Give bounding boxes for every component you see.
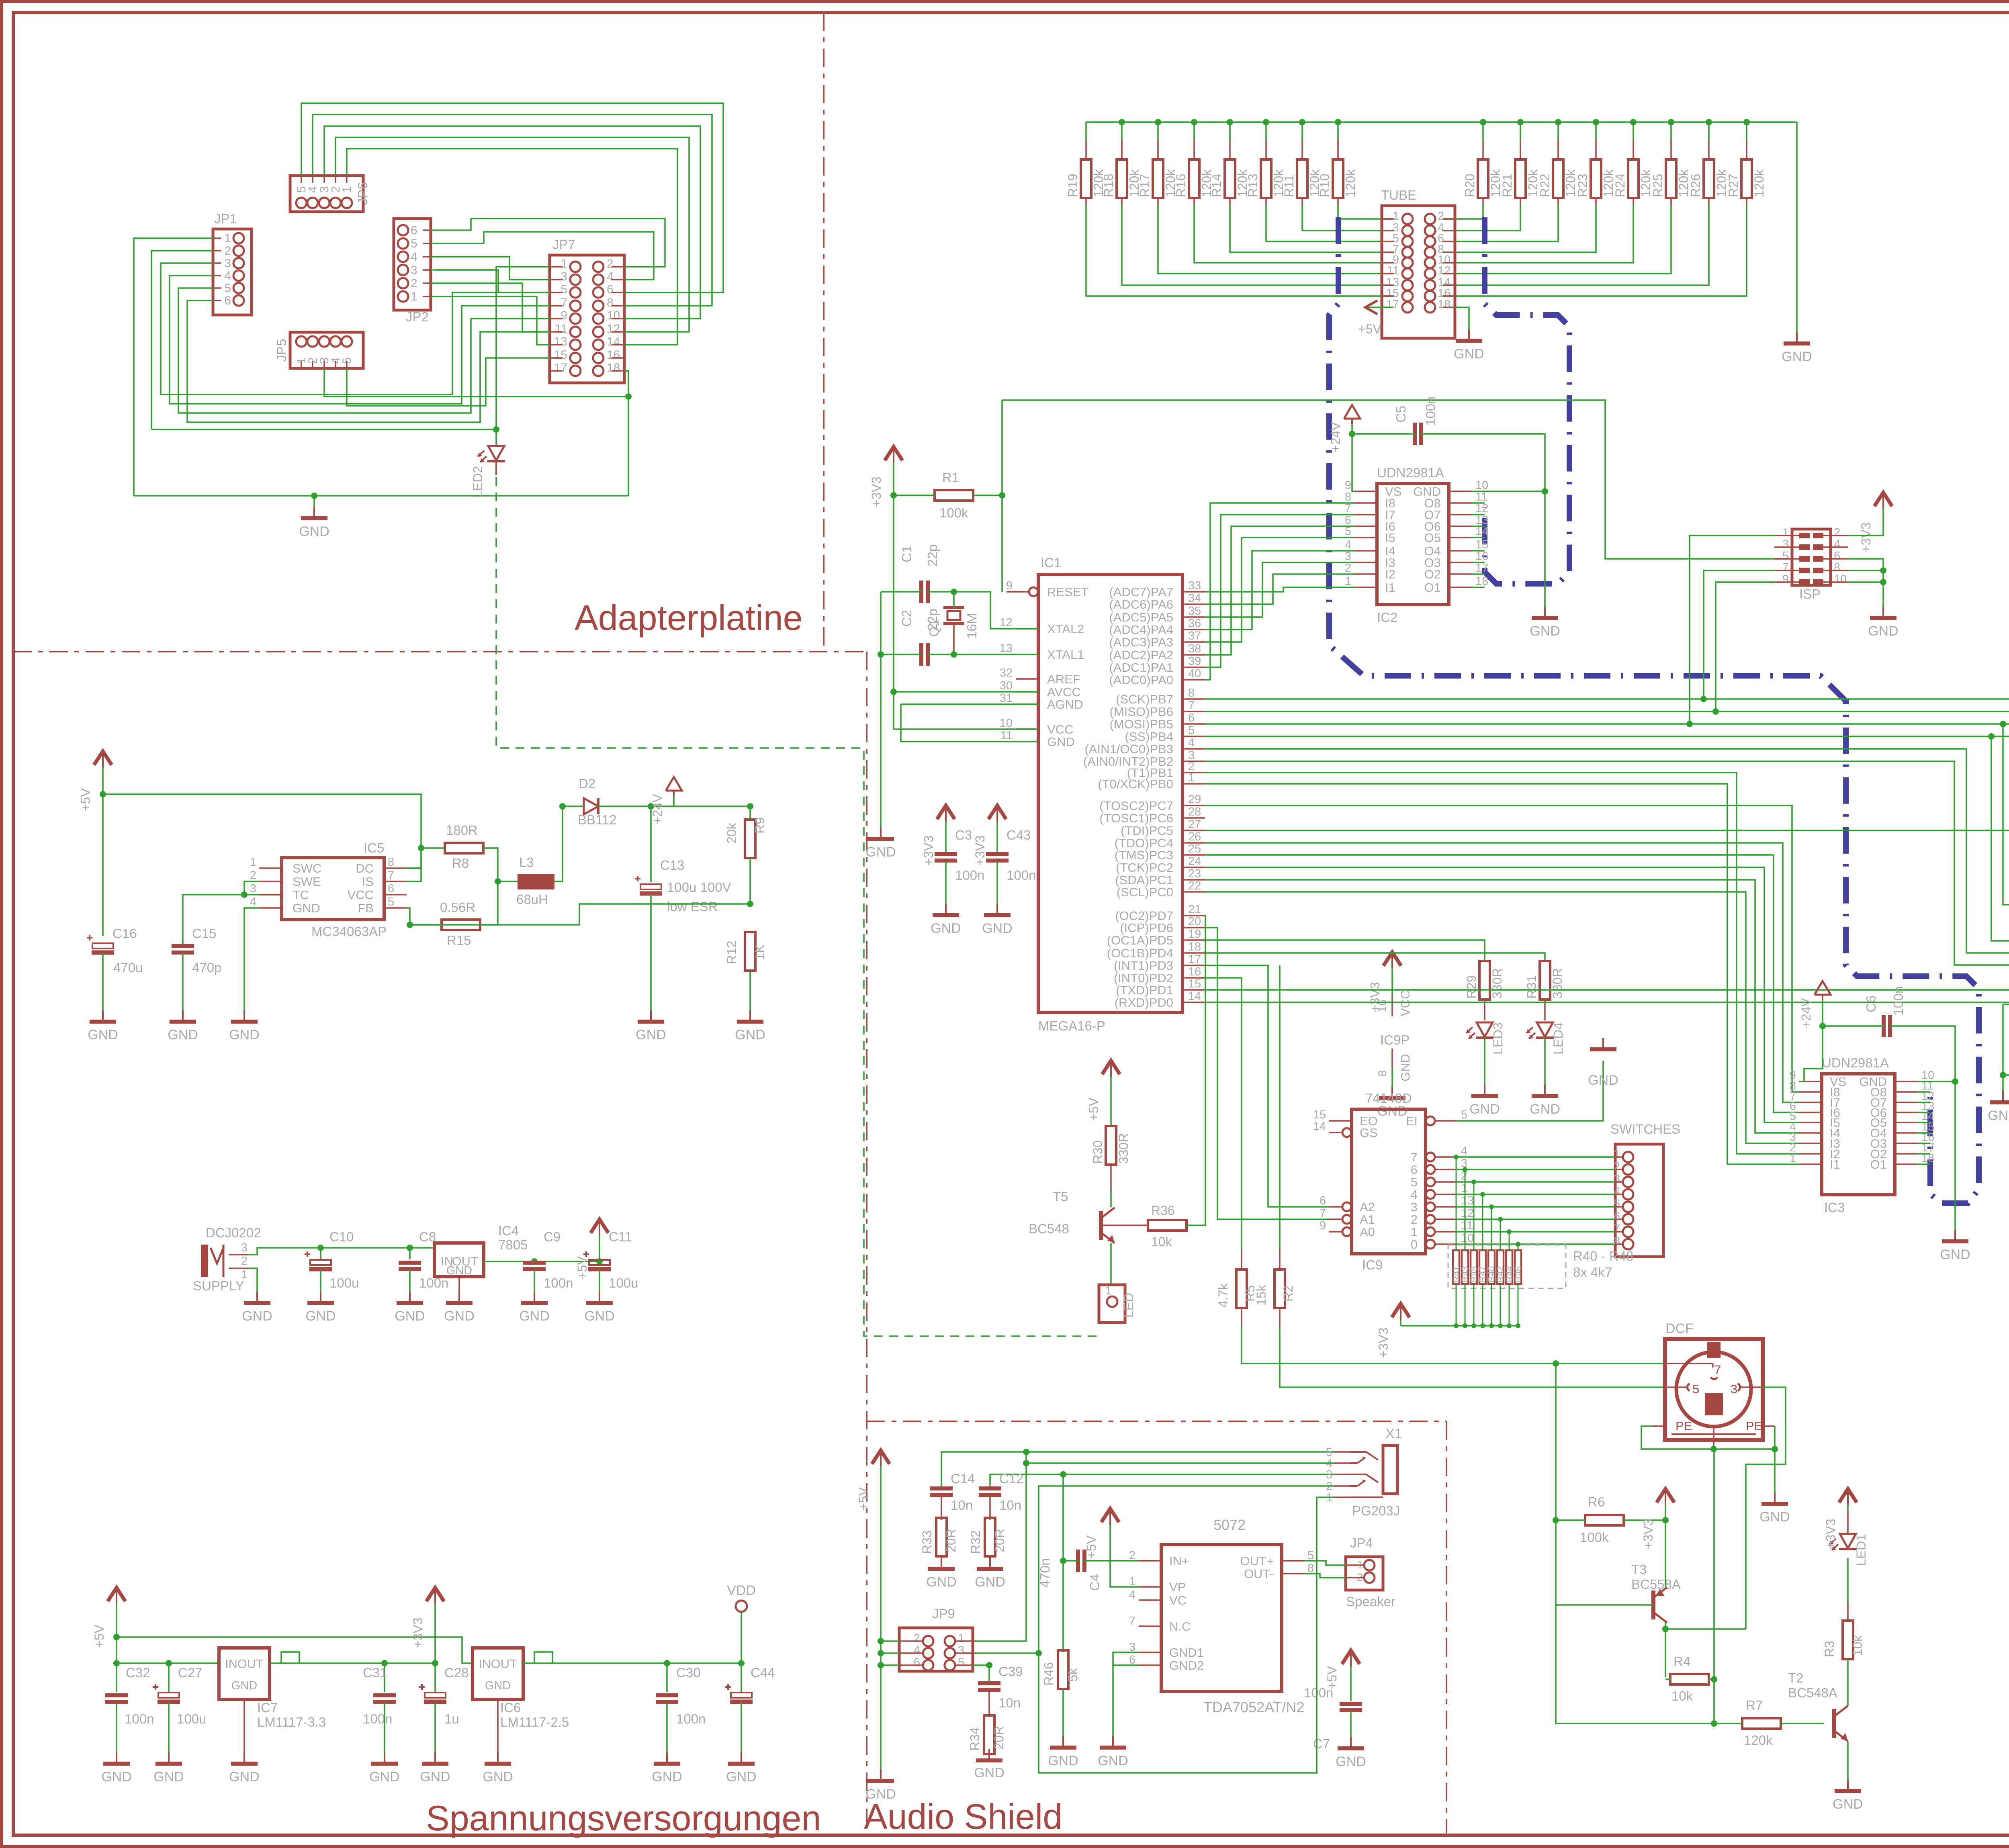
svg-text:27: 27 xyxy=(1188,818,1201,831)
svg-text:R34: R34 xyxy=(968,1727,982,1751)
resistor R18 120k xyxy=(1101,122,1394,285)
resistor R3 10k xyxy=(1822,1558,1865,1679)
svg-text:5: 5 xyxy=(388,895,394,908)
svg-text:6: 6 xyxy=(1411,1163,1418,1177)
svg-text:13: 13 xyxy=(1000,642,1013,655)
svg-text:C7: C7 xyxy=(1313,1736,1330,1751)
svg-text:100u 100V: 100u 100V xyxy=(667,880,731,895)
svg-text:R1: R1 xyxy=(942,470,959,485)
svg-text:IC9P: IC9P xyxy=(1380,1032,1410,1047)
svg-text:16: 16 xyxy=(607,348,620,362)
section divider left column vertical xyxy=(866,652,867,1835)
svg-text:14: 14 xyxy=(1188,990,1201,1003)
section divider audio shield right xyxy=(1446,1421,1447,1835)
svg-text:8: 8 xyxy=(388,856,394,869)
capacitor C28 1u xyxy=(419,1663,469,1785)
svg-text:IC7: IC7 xyxy=(257,1700,278,1715)
svg-text:I1: I1 xyxy=(1385,581,1395,595)
svg-text:31: 31 xyxy=(1000,692,1013,705)
svg-text:11: 11 xyxy=(1461,1219,1473,1232)
svg-text:5: 5 xyxy=(1307,1549,1314,1562)
svg-text:0: 0 xyxy=(1411,1237,1418,1251)
IC9 74148D xyxy=(1313,1091,1474,1272)
connector JP1 xyxy=(213,211,252,315)
svg-text:BC558A: BC558A xyxy=(1631,1577,1681,1592)
svg-text:7: 7 xyxy=(1188,699,1195,712)
svg-text:C4: C4 xyxy=(1087,1574,1102,1591)
svg-text:1u: 1u xyxy=(444,1711,459,1726)
svg-text:(ADC1)PA1: (ADC1)PA1 xyxy=(1109,660,1173,675)
svg-text:A2: A2 xyxy=(1360,1200,1375,1214)
svg-text:GND: GND xyxy=(293,901,320,915)
connector SWITCHES xyxy=(1610,1122,1680,1257)
resistor R4 10k xyxy=(1665,1654,1717,1703)
capacitor C12 10n xyxy=(979,1471,1334,1520)
resistor R17 120k xyxy=(1137,122,1394,274)
svg-text:(SCK)PB7: (SCK)PB7 xyxy=(1116,692,1173,706)
svg-text:C1: C1 xyxy=(899,546,914,562)
svg-text:24: 24 xyxy=(1188,855,1201,868)
resistor R16 120k xyxy=(1174,122,1394,263)
svg-text:21: 21 xyxy=(1188,903,1201,916)
resistor R15 0.56R xyxy=(407,881,498,948)
svg-text:8x 4k7: 8x 4k7 xyxy=(1573,1265,1612,1280)
resistor array R40-R48 xyxy=(1448,1155,1633,1328)
svg-text:C14: C14 xyxy=(951,1471,975,1486)
svg-text:10k: 10k xyxy=(1671,1689,1693,1703)
svg-text:JP2: JP2 xyxy=(406,309,429,324)
svg-text:100n: 100n xyxy=(125,1711,154,1726)
svg-text:MC34063AP: MC34063AP xyxy=(311,924,387,939)
resistor R13 120k xyxy=(1246,122,1394,241)
svg-text:14: 14 xyxy=(607,335,620,348)
svg-text:C31: C31 xyxy=(363,1665,387,1680)
resistor R2 15k xyxy=(1254,965,1665,1387)
svg-text:R46: R46 xyxy=(1041,1662,1056,1686)
svg-text:3: 3 xyxy=(411,264,417,277)
resistor R46 5k xyxy=(1041,1650,1080,1768)
wire PB bus to SPI nets xyxy=(1205,696,2009,965)
svg-text:C32: C32 xyxy=(126,1665,150,1680)
svg-text:1: 1 xyxy=(1614,1148,1620,1161)
capacitor C13 100u 100V xyxy=(635,806,731,1043)
svg-text:GND: GND xyxy=(519,1308,550,1324)
svg-text:3: 3 xyxy=(241,1241,248,1254)
svg-text:1: 1 xyxy=(1411,1225,1418,1239)
wire IC2 pin10 gnd net xyxy=(1471,488,1560,639)
svg-text:SWITCHES: SWITCHES xyxy=(1610,1122,1680,1137)
resistor R6 100k xyxy=(1553,1360,1669,1545)
supply +5V TUBE pin17 arrow xyxy=(1358,301,1393,336)
svg-text:LM1117-3.3: LM1117-3.3 xyxy=(257,1715,326,1729)
svg-text:4: 4 xyxy=(1411,1188,1418,1202)
svg-text:32: 32 xyxy=(1000,666,1013,679)
svg-text:(SS)PB4: (SS)PB4 xyxy=(1125,730,1173,744)
svg-text:+3V3: +3V3 xyxy=(921,835,936,866)
svg-text:C6: C6 xyxy=(1864,996,1878,1012)
svg-text:GND: GND xyxy=(1048,1753,1078,1768)
resistor R25 120k xyxy=(1442,122,1691,274)
svg-text:+5V: +5V xyxy=(78,788,93,812)
svg-text:1: 1 xyxy=(1461,1182,1467,1195)
svg-text:+3V3: +3V3 xyxy=(1859,522,1873,553)
svg-text:C2: C2 xyxy=(899,610,914,627)
supply +5V boost input xyxy=(78,751,112,812)
svg-text:R12: R12 xyxy=(724,940,739,964)
supply +24V output xyxy=(650,777,682,824)
svg-text:XTAL1: XTAL1 xyxy=(1047,648,1084,662)
svg-text:R19: R19 xyxy=(1066,174,1080,197)
svg-text:4: 4 xyxy=(1614,1185,1620,1198)
svg-text:330R: 330R xyxy=(1550,968,1565,999)
svg-text:(OC1A)PD5: (OC1A)PD5 xyxy=(1107,933,1173,947)
connector JP7 xyxy=(550,237,624,383)
capacitor C8 100n xyxy=(395,1229,448,1324)
wire IC2 GND pin10 xyxy=(0,0,0,0)
connector LED output xyxy=(1099,1243,1136,1323)
svg-text:R8: R8 xyxy=(452,856,469,871)
wire T3 collector node xyxy=(1665,1629,1746,1677)
connector JP5 xyxy=(274,332,363,368)
svg-text:2: 2 xyxy=(1411,1212,1418,1227)
capacitor C32 100n xyxy=(101,1663,154,1785)
svg-text:R24: R24 xyxy=(1613,174,1627,197)
svg-text:4: 4 xyxy=(1129,1588,1135,1601)
svg-text:6: 6 xyxy=(1320,1194,1326,1207)
svg-text:EI: EI xyxy=(1406,1114,1418,1128)
svg-text:9: 9 xyxy=(1782,573,1789,586)
wire IC5 pin8 DC node xyxy=(407,867,421,869)
svg-text:R46: R46 xyxy=(1513,1266,1523,1282)
svg-text:100n: 100n xyxy=(676,1711,706,1726)
svg-text:7805: 7805 xyxy=(498,1237,528,1252)
wire ISP MISO MOSI SCK xyxy=(1690,536,1774,724)
svg-text:R30: R30 xyxy=(1090,1140,1105,1164)
svg-text:6: 6 xyxy=(914,1656,920,1669)
IC5 MC34063AP xyxy=(250,840,407,939)
wire X1 pin2 from JP9 xyxy=(973,1650,1042,1656)
wire IC3 GND net xyxy=(1917,1081,1970,1262)
svg-text:(ADC4)PA4: (ADC4)PA4 xyxy=(1109,623,1173,637)
svg-text:SUPPLY: SUPPLY xyxy=(193,1278,244,1293)
svg-text:C16: C16 xyxy=(113,926,137,941)
svg-text:+3V3: +3V3 xyxy=(1376,1327,1391,1358)
svg-text:2: 2 xyxy=(1614,1160,1620,1173)
resistor R11 120k xyxy=(1282,122,1394,231)
svg-text:26: 26 xyxy=(1188,830,1201,843)
wire JP9 nets xyxy=(878,1638,899,1665)
svg-text:(ICP)PD6: (ICP)PD6 xyxy=(1120,921,1173,935)
svg-text:6: 6 xyxy=(388,882,394,895)
svg-text:100n: 100n xyxy=(363,1711,392,1726)
svg-text:(RXD)PD0: (RXD)PD0 xyxy=(1115,996,1173,1010)
svg-text:6: 6 xyxy=(1188,711,1195,724)
svg-text:BC548: BC548 xyxy=(1029,1221,1069,1236)
capacitor C3 100n xyxy=(921,805,984,936)
svg-text:7: 7 xyxy=(1411,1150,1418,1164)
svg-text:(MISO)PB6: (MISO)PB6 xyxy=(1110,705,1173,719)
svg-text:470p: 470p xyxy=(192,960,221,975)
wire JP5 to JP7 xyxy=(324,358,632,406)
wire +5V top rail to IC6 xyxy=(117,1637,473,1663)
svg-text:10k: 10k xyxy=(1151,1235,1172,1249)
junction GND rail adapter xyxy=(311,493,317,499)
svg-text:2: 2 xyxy=(1834,526,1840,539)
wire feedback FB net xyxy=(407,904,750,928)
capacitor C11 100u xyxy=(583,1229,638,1324)
svg-text:4: 4 xyxy=(250,895,256,908)
svg-text:L3: L3 xyxy=(519,855,534,870)
resistor R9 20k xyxy=(724,806,767,907)
svg-text:16: 16 xyxy=(1475,550,1488,563)
svg-text:1: 1 xyxy=(1345,575,1351,588)
capacitor C30 100n xyxy=(652,1663,706,1785)
svg-text:4: 4 xyxy=(914,1644,920,1657)
svg-text:IC2: IC2 xyxy=(1377,610,1397,625)
capacitor C10 100u xyxy=(305,1229,359,1324)
svg-text:4.7k: 4.7k xyxy=(1216,1283,1230,1308)
svg-text:C10: C10 xyxy=(329,1229,354,1244)
svg-text:16M: 16M xyxy=(964,613,979,639)
capacitor C14 10n xyxy=(930,1449,1334,1520)
svg-text:+5V: +5V xyxy=(575,1256,589,1280)
svg-text:100n: 100n xyxy=(955,868,984,883)
svg-text:(ADC3)PA3: (ADC3)PA3 xyxy=(1109,635,1173,649)
wire DCF pin3 net xyxy=(1746,1387,1786,1629)
wire PD1 GPIO2 xyxy=(1205,990,2009,1122)
svg-text:VP: VP xyxy=(1169,1580,1186,1594)
svg-text:R26: R26 xyxy=(1688,174,1703,197)
svg-text:10n: 10n xyxy=(951,1498,973,1513)
transistor T2 BC548A xyxy=(1788,1670,1863,1812)
svg-text:1: 1 xyxy=(411,290,417,303)
capacitor C6 100n xyxy=(1823,986,1958,1085)
svg-text:GND: GND xyxy=(652,1769,682,1785)
svg-text:JP5: JP5 xyxy=(274,339,289,362)
svg-text:N.C: N.C xyxy=(1169,1619,1191,1633)
svg-text:3: 3 xyxy=(1345,550,1351,563)
svg-text:20R: 20R xyxy=(992,1726,1006,1750)
svg-text:GND: GND xyxy=(395,1308,425,1324)
svg-text:OUT: OUT xyxy=(237,1657,264,1671)
svg-text:low ESR: low ESR xyxy=(667,899,718,914)
svg-text:GND: GND xyxy=(299,524,329,539)
svg-text:R18: R18 xyxy=(1101,174,1116,197)
svg-text:6: 6 xyxy=(1129,1654,1135,1666)
svg-text:1: 1 xyxy=(250,856,256,869)
resistor R27 120k xyxy=(1442,122,1766,296)
svg-text:7: 7 xyxy=(1345,502,1351,515)
svg-text:15: 15 xyxy=(1188,977,1201,990)
svg-text:8: 8 xyxy=(1376,1070,1389,1077)
svg-text:36: 36 xyxy=(1188,617,1201,630)
svg-text:17: 17 xyxy=(554,361,567,374)
svg-text:LED3: LED3 xyxy=(1491,1022,1505,1055)
svg-text:LED1: LED1 xyxy=(1854,1534,1868,1566)
svg-text:68uH: 68uH xyxy=(516,892,548,907)
svg-text:GND: GND xyxy=(1759,1509,1790,1525)
section divider audio shield top xyxy=(867,1421,1446,1422)
capacitor C4 470n xyxy=(1037,1474,1139,1652)
svg-text:VDD: VDD xyxy=(727,1583,756,1598)
svg-text:5: 5 xyxy=(1411,1175,1418,1189)
svg-text:4: 4 xyxy=(1461,1145,1467,1157)
svg-text:GND: GND xyxy=(1398,1054,1412,1081)
svg-text:2: 2 xyxy=(224,244,231,258)
svg-text:(ADC5)PA5: (ADC5)PA5 xyxy=(1109,610,1173,624)
svg-text:C9: C9 xyxy=(544,1229,561,1244)
svg-text:R22: R22 xyxy=(1538,174,1552,197)
supply +3V3 LDO output xyxy=(411,1588,444,1663)
svg-text:O2: O2 xyxy=(1424,567,1441,581)
svg-text:3: 3 xyxy=(1411,1200,1418,1214)
svg-text:C5: C5 xyxy=(1393,406,1408,423)
LED LED2 xyxy=(471,446,505,498)
svg-text:VC: VC xyxy=(1169,1593,1187,1607)
svg-text:I1: I1 xyxy=(1830,1157,1840,1171)
svg-text:T5: T5 xyxy=(1053,1189,1068,1204)
svg-text:O1: O1 xyxy=(1870,1157,1887,1171)
svg-text:18: 18 xyxy=(1438,298,1450,311)
svg-text:5: 5 xyxy=(411,237,417,250)
svg-text:GND: GND xyxy=(231,1679,257,1692)
svg-text:A0: A0 xyxy=(1360,1225,1375,1239)
svg-text:C3: C3 xyxy=(955,828,972,842)
svg-text:330R: 330R xyxy=(1116,1133,1131,1164)
svg-text:GND: GND xyxy=(153,1769,184,1785)
resistor R8 180R xyxy=(407,823,498,881)
svg-text:R11: R11 xyxy=(1282,175,1296,197)
svg-text:GND: GND xyxy=(584,1308,615,1324)
svg-text:8: 8 xyxy=(1834,561,1840,574)
wire DCF PE to R4 node xyxy=(1713,1449,1715,1677)
svg-text:6: 6 xyxy=(411,224,417,237)
wire R40-48 rail to +3V3 xyxy=(1376,1304,1518,1358)
connector JP4 Speaker xyxy=(1346,1535,1395,1609)
resistor R24 120k xyxy=(1442,122,1653,263)
svg-text:A1: A1 xyxy=(1360,1212,1375,1227)
svg-text:100u: 100u xyxy=(329,1276,359,1290)
svg-text:R29: R29 xyxy=(1464,975,1479,999)
wire PC6 XRESET net xyxy=(1205,827,2009,905)
svg-text:3: 3 xyxy=(1326,1468,1332,1481)
svg-text:4: 4 xyxy=(411,250,417,264)
supply +24V IC3 xyxy=(1799,981,1831,1029)
svg-text:VCC: VCC xyxy=(1047,722,1073,736)
svg-text:R15: R15 xyxy=(447,933,471,948)
svg-text:(TOSC1)PC6: (TOSC1)PC6 xyxy=(1099,811,1173,825)
svg-text:330R: 330R xyxy=(1490,968,1504,999)
wire T3 base net to R7 xyxy=(1556,1605,1714,1723)
svg-text:R32: R32 xyxy=(968,1530,983,1554)
supply +3V3 MCU xyxy=(869,447,902,507)
transistor T3 BC558A xyxy=(1556,1520,1681,1632)
svg-text:GND: GND xyxy=(1940,1247,1970,1262)
svg-text:LED4: LED4 xyxy=(1551,1022,1565,1055)
section title Adapterplatine xyxy=(575,598,803,638)
svg-text:10: 10 xyxy=(1834,573,1847,586)
wire supply rail 5V input xyxy=(242,1245,434,1324)
svg-text:6: 6 xyxy=(1834,550,1840,562)
svg-text:20: 20 xyxy=(1188,915,1201,928)
capacitor C1 22p xyxy=(881,544,1038,629)
resistor R26 120k xyxy=(1442,122,1729,285)
svg-text:GND: GND xyxy=(1530,623,1560,639)
IC2 UDN2981A xyxy=(1345,465,1488,625)
svg-text:11: 11 xyxy=(555,322,567,335)
svg-text:GND: GND xyxy=(483,1769,513,1785)
svg-text:IC3: IC3 xyxy=(1824,1200,1845,1215)
svg-text:4: 4 xyxy=(1345,538,1351,551)
svg-text:16: 16 xyxy=(1188,965,1201,978)
svg-text:13: 13 xyxy=(554,335,567,348)
svg-text:IC9: IC9 xyxy=(1362,1257,1383,1272)
svg-text:4: 4 xyxy=(224,269,231,282)
svg-text:R7: R7 xyxy=(1746,1698,1763,1713)
svg-text:R31: R31 xyxy=(1524,975,1539,999)
ground IC5 pin4 xyxy=(229,908,260,1043)
svg-text:(AIN1/OC0)PB3: (AIN1/OC0)PB3 xyxy=(1084,742,1173,756)
svg-text:+3V3: +3V3 xyxy=(1641,1519,1655,1549)
svg-text:2: 2 xyxy=(1129,1549,1135,1562)
resistor R12 1K xyxy=(724,932,767,1043)
svg-text:100n: 100n xyxy=(1423,397,1438,426)
svg-text:C28: C28 xyxy=(444,1665,469,1680)
svg-text:2: 2 xyxy=(607,257,614,270)
svg-text:C27: C27 xyxy=(178,1665,203,1680)
IC1 MEGA16-P xyxy=(1000,555,1205,1033)
svg-text:(OC1B)PD4: (OC1B)PD4 xyxy=(1107,946,1173,960)
svg-text:18: 18 xyxy=(607,361,620,374)
svg-text:DC: DC xyxy=(356,861,374,875)
svg-text:GND: GND xyxy=(1336,1754,1366,1769)
svg-text:IN: IN xyxy=(479,1657,491,1671)
svg-text:5k: 5k xyxy=(1066,1668,1080,1682)
svg-text:GND: GND xyxy=(735,1027,765,1043)
svg-text:+5V: +5V xyxy=(92,1625,106,1648)
connector TUBE xyxy=(1381,188,1455,338)
svg-text:RESET: RESET xyxy=(1047,585,1088,599)
resistor R10 120k xyxy=(1318,122,1394,219)
svg-text:8: 8 xyxy=(1614,1235,1620,1248)
svg-text:UDN2981A: UDN2981A xyxy=(1822,1055,1889,1070)
svg-text:GND: GND xyxy=(726,1769,757,1785)
wire PD0 GPIO3 xyxy=(1205,1002,2009,1134)
resistor R34 20R xyxy=(968,1715,1006,1781)
svg-text:100u: 100u xyxy=(609,1276,638,1290)
svg-text:I2: I2 xyxy=(1385,567,1395,581)
svg-text:(TCK)PC2: (TCK)PC2 xyxy=(1116,861,1173,875)
resistor R31 330R xyxy=(1205,953,1565,1020)
wire headphone detect loop xyxy=(973,1486,1334,1773)
resistor R19 120k xyxy=(1066,122,1394,296)
connector JP2 xyxy=(394,219,431,324)
svg-text:GND: GND xyxy=(1782,349,1812,364)
svg-text:FB: FB xyxy=(358,901,374,915)
svg-text:C11: C11 xyxy=(609,1229,632,1244)
capacitor C16 xyxy=(87,926,143,1043)
svg-text:(TOSC2)PC7: (TOSC2)PC7 xyxy=(1099,799,1173,813)
svg-text:C44: C44 xyxy=(751,1665,775,1680)
svg-text:10k: 10k xyxy=(1850,1635,1865,1656)
svg-text:3: 3 xyxy=(1129,1641,1135,1654)
power jack DCJ0202 xyxy=(193,1225,261,1293)
svg-text:33: 33 xyxy=(1188,579,1201,592)
svg-text:2: 2 xyxy=(1345,562,1351,574)
svg-text:GND: GND xyxy=(88,1027,118,1043)
wire TUBE pin18 to ground xyxy=(1454,307,1484,362)
svg-text:Speaker: Speaker xyxy=(1346,1594,1395,1609)
